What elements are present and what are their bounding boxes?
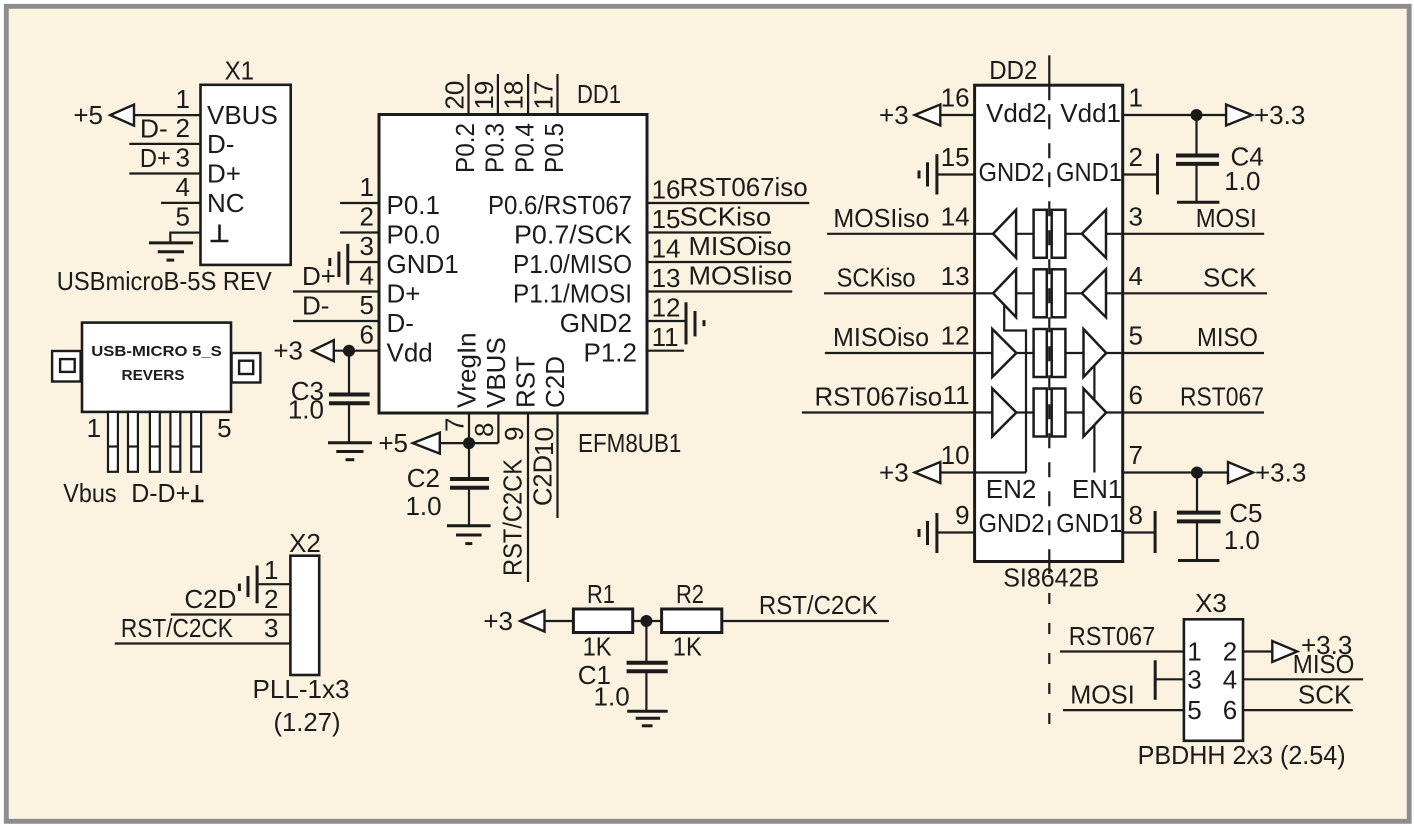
- svg-text:1.0: 1.0: [405, 491, 441, 521]
- svg-text:D-: D-: [387, 308, 414, 338]
- svg-text:+3: +3: [483, 606, 513, 636]
- svg-text:PLL-1x3: PLL-1x3: [253, 674, 350, 704]
- DD2 pin names row1 Vdd2 Vdd1: [979, 98, 1123, 538]
- svg-text:MOSIiso: MOSIiso: [833, 203, 929, 233]
- wire DD1 pin10 net C2D: [556, 413, 558, 518]
- DD1 top pin 19 wire: [497, 74, 499, 115]
- wire DD1 pin6 to +3: [334, 350, 379, 352]
- DD2 right pin numbers: [1129, 83, 1143, 531]
- iso ground bar at pin8: [1154, 511, 1157, 553]
- DD2 body: [975, 85, 1123, 561]
- wire X1 pin5 to ground: [170, 233, 200, 243]
- svg-text:Vbus: Vbus: [63, 478, 116, 508]
- junction node pin7/C5: [1191, 467, 1203, 479]
- wire DD2 pin5 net MISO: [1123, 352, 1264, 354]
- footprint pin 2: [128, 412, 138, 472]
- svg-text:2: 2: [264, 584, 278, 614]
- wire DD2 pin14 net MOSIiso: [827, 233, 975, 235]
- junction node pin1/C4: [1191, 109, 1203, 121]
- svg-text:NC: NC: [207, 188, 245, 218]
- DD1 bottom pin numbers 7 8 9 10: [440, 418, 560, 456]
- svg-text:2: 2: [360, 202, 374, 232]
- svg-text:Vdd1: Vdd1: [1060, 98, 1121, 128]
- wire DD2 pin7 to +3.3: [1123, 471, 1228, 473]
- wire X1 pin2 net D-: [129, 143, 200, 145]
- svg-text:MOSI: MOSI: [1070, 680, 1134, 710]
- svg-text:MISO: MISO: [1293, 649, 1355, 679]
- wire DD1 pin16 net RST067iso: [647, 202, 809, 204]
- svg-text:(1.27): (1.27): [274, 707, 341, 737]
- channel 2 wire (pin13 to pin4 internal): [975, 292, 994, 294]
- capacitor C1: [627, 663, 668, 672]
- wire C4 to iso ground: [1195, 164, 1197, 202]
- wire junction to C4: [1195, 115, 1197, 156]
- svg-text:RST: RST: [511, 356, 541, 408]
- footprint body: [82, 323, 231, 412]
- svg-text:12: 12: [941, 321, 970, 351]
- svg-text:5: 5: [176, 202, 190, 232]
- svg-text:GND1: GND1: [1056, 157, 1122, 187]
- svg-text:SCKiso: SCKiso: [837, 262, 916, 292]
- wire X2 pin1 to ground: [259, 583, 291, 585]
- svg-text:13: 13: [652, 263, 681, 293]
- ground below C1: [627, 711, 668, 726]
- svg-text:10: 10: [529, 427, 559, 456]
- svg-text:15: 15: [941, 142, 970, 172]
- svg-text:4: 4: [1129, 261, 1143, 291]
- DD1 top pin numbers 20 19 18 17: [440, 81, 559, 110]
- svg-text:RST/C2CK: RST/C2CK: [759, 590, 878, 620]
- wire DD2 pin13 net SCKiso: [824, 292, 975, 294]
- footprint pin 3: [150, 412, 160, 472]
- wire X2 pin2 net C2D: [171, 613, 291, 615]
- svg-text:1.0: 1.0: [594, 682, 630, 712]
- channel 1 wire (pin14 to pin3 internal): [975, 233, 994, 235]
- capacitor C4: [1176, 156, 1219, 164]
- connector X2: [289, 528, 321, 675]
- svg-text:2: 2: [1223, 637, 1237, 667]
- svg-text:5: 5: [1129, 321, 1143, 351]
- svg-text:5: 5: [360, 290, 374, 320]
- wire DD1 pin12 to ground: [647, 320, 686, 322]
- svg-text:1: 1: [87, 413, 101, 443]
- wire DD2 pin10 EN2 to +3: [940, 471, 1026, 473]
- wire DD2 pin2 to iso ground: [1123, 173, 1158, 175]
- svg-text:MISOiso: MISOiso: [689, 231, 792, 261]
- svg-text:+3: +3: [879, 100, 909, 130]
- svg-text:EN2: EN2: [986, 474, 1037, 504]
- DD1 pin names P0.2 P0.3 P0.4 P0.5: [450, 123, 569, 173]
- svg-text:1: 1: [1129, 83, 1143, 113]
- svg-text:D+: D+: [207, 159, 241, 189]
- svg-text:Vdd: Vdd: [387, 338, 433, 368]
- svg-text:REVERS: REVERS: [122, 367, 185, 384]
- svg-text:+3: +3: [273, 336, 303, 366]
- svg-text:+5: +5: [378, 428, 408, 458]
- wire X3 pin4 net MISO: [1243, 678, 1363, 680]
- wire C3 to ground: [348, 403, 350, 443]
- wire DD1 pin5 net D-: [293, 320, 379, 322]
- DD1 top pin 20 wire: [467, 74, 469, 115]
- svg-text:6: 6: [360, 320, 374, 350]
- wire X1 pin1 to +5: [134, 114, 201, 116]
- X2 pin numbers 1-3: [264, 555, 278, 643]
- svg-text:C2D: C2D: [540, 356, 570, 408]
- svg-text:VBUS: VBUS: [481, 337, 511, 408]
- svg-text:5: 5: [1187, 695, 1201, 725]
- wire DD1 pin15 net SCKiso: [647, 231, 771, 233]
- isolation barrier dashed centerline: [1048, 85, 1050, 561]
- svg-text:RST067: RST067: [1069, 621, 1155, 651]
- svg-text:USB-MICRO 5_S: USB-MICRO 5_S: [91, 343, 222, 360]
- svg-text:1: 1: [176, 84, 190, 114]
- wire DD2 pin3 net MOSI: [1123, 233, 1264, 235]
- wire junction to C1: [645, 621, 647, 663]
- channel 4 wire (pin11 to pin6 internal): [975, 411, 993, 413]
- svg-text:VregIn: VregIn: [452, 332, 482, 408]
- svg-text:19: 19: [469, 81, 499, 110]
- svg-text:X2: X2: [289, 528, 321, 558]
- isolation barrier line above body: [1048, 55, 1050, 85]
- svg-text:1.0: 1.0: [288, 395, 324, 425]
- svg-text:R1: R1: [587, 579, 615, 609]
- power arrow +3 (R1): [520, 611, 544, 632]
- channel 1 isolation capacitor: [1034, 210, 1047, 258]
- wire pin6 junction to C3: [348, 351, 350, 395]
- USB-micro footprint drawing: [52, 323, 260, 508]
- power arrow +3.3 (pin7): [1228, 462, 1253, 483]
- svg-text:3: 3: [360, 231, 374, 261]
- channel 2 buffer left: [993, 269, 1016, 317]
- ground below C3: [328, 443, 372, 460]
- svg-text:3: 3: [176, 143, 190, 173]
- svg-text:MOSIiso: MOSIiso: [689, 261, 793, 291]
- iso ground bar at pin2: [1156, 154, 1159, 195]
- svg-text:9: 9: [955, 500, 969, 530]
- svg-text:+3.3: +3.3: [1255, 458, 1306, 488]
- channel 4 buffer left: [992, 389, 1016, 437]
- svg-text:4: 4: [176, 172, 190, 202]
- svg-text:1.0: 1.0: [1224, 525, 1260, 555]
- footprint pin 1: [108, 412, 118, 472]
- DD2 left pin numbers: [941, 83, 970, 531]
- DD1 top pin 18 wire: [527, 74, 529, 115]
- DD1 top pin 17 wire: [556, 74, 558, 115]
- svg-text:16: 16: [652, 175, 681, 205]
- svg-text:VBUS: VBUS: [207, 100, 278, 130]
- svg-text:EFM8UB1: EFM8UB1: [578, 428, 681, 458]
- svg-text:GND2: GND2: [560, 308, 632, 338]
- wire junction to C5: [1196, 473, 1198, 513]
- wire X1 pin4 NC stub: [161, 202, 200, 204]
- wire DD2 pin1 to +3.3: [1123, 114, 1226, 116]
- capacitor C3: [329, 395, 370, 404]
- DD1 left pin numbers 1-6: [360, 172, 374, 350]
- svg-text:P0.7/SCK: P0.7/SCK: [514, 220, 633, 250]
- wire X3 pin3 to iso ground: [1155, 678, 1184, 680]
- DD1 right pin numbers 16-11: [652, 175, 681, 353]
- wire DD2 pin6 net RST067: [1123, 411, 1264, 413]
- svg-text:P1.1/MOSI: P1.1/MOSI: [513, 279, 632, 309]
- svg-text:GND1: GND1: [1056, 508, 1122, 538]
- svg-text:R2: R2: [676, 579, 704, 609]
- svg-text:1: 1: [360, 172, 374, 202]
- svg-text:P0.3: P0.3: [479, 123, 509, 173]
- footprint left tab: [52, 351, 81, 382]
- svg-text:18: 18: [499, 81, 529, 110]
- X1 pin name GND symbol: [211, 225, 229, 242]
- svg-text:RST/C2CK: RST/C2CK: [121, 613, 234, 643]
- iso ground bar below C5: [1178, 559, 1219, 562]
- svg-text:2: 2: [1129, 142, 1143, 172]
- wire X3 pin6 net SCK: [1243, 709, 1353, 711]
- wire DD1 pin13 net MOSIiso: [647, 290, 792, 292]
- wire DD2 pin4 net SCK: [1123, 292, 1267, 294]
- wire DD2 pin9 to ground: [937, 531, 975, 533]
- svg-text:DD2: DD2: [989, 55, 1037, 85]
- svg-text:1K: 1K: [583, 632, 613, 662]
- svg-text:C5: C5: [1229, 498, 1262, 528]
- svg-text:+3.3: +3.3: [1254, 100, 1305, 130]
- svg-text:11: 11: [943, 380, 970, 410]
- wire DD2 pin15 to ground: [937, 173, 975, 175]
- wire DD2 pin12 net MISOiso: [825, 352, 975, 354]
- svg-text:D+: D+: [140, 143, 171, 173]
- svg-text:15: 15: [652, 204, 681, 234]
- channel 2 isolation capacitor: [1034, 269, 1047, 317]
- svg-text:6: 6: [1129, 380, 1143, 410]
- wire +3 to R1: [545, 620, 574, 622]
- footprint label ground symbol: [191, 485, 204, 501]
- svg-text:17: 17: [528, 81, 558, 110]
- ground at DD1 pin12 (rotated right): [686, 302, 704, 344]
- svg-text:P0.0: P0.0: [387, 220, 441, 250]
- svg-text:D-: D-: [302, 291, 329, 321]
- wire DD2 pin16 to +3: [940, 114, 974, 116]
- svg-text:3: 3: [1129, 201, 1143, 231]
- svg-text:D+: D+: [387, 279, 421, 309]
- channel 3 buffer right: [1084, 329, 1107, 377]
- svg-text:USBmicroB-5S REV: USBmicroB-5S REV: [57, 266, 273, 296]
- connector X3: [1184, 588, 1243, 741]
- channel 1 buffer left: [993, 210, 1016, 258]
- svg-text:GND1: GND1: [387, 249, 459, 279]
- svg-text:20: 20: [440, 81, 470, 110]
- X1 pin numbers 1-5: [176, 84, 190, 232]
- svg-text:MOSI: MOSI: [1196, 203, 1257, 233]
- svg-text:RST067: RST067: [1180, 382, 1264, 412]
- isolator DD2 SI8642B: [975, 55, 1123, 562]
- svg-text:SCKiso: SCKiso: [680, 202, 772, 232]
- power arrow +3 (pin16): [915, 105, 941, 126]
- svg-text:5: 5: [217, 413, 231, 443]
- channel 3 wire (pin12 to pin5 internal): [975, 352, 993, 354]
- wire DD1 pin9 net RST/C2CK: [527, 413, 529, 582]
- EN1 internal wire: [1093, 366, 1095, 473]
- svg-text:DD1: DD1: [577, 79, 621, 109]
- svg-text:GND2: GND2: [979, 157, 1045, 187]
- ground at X2 pin1 (rotated): [239, 565, 257, 603]
- channel 3 isolation capacitor: [1034, 329, 1047, 377]
- svg-text:SCK: SCK: [1298, 680, 1352, 710]
- wire X3 pin1 net RST067: [1060, 650, 1184, 652]
- wire DD1 pin7: [468, 413, 470, 443]
- wire DD1 pin1 stub: [340, 202, 379, 204]
- svg-text:C2: C2: [407, 463, 440, 493]
- channel 4 isolation capacitor: [1034, 389, 1047, 437]
- power arrow +3.3 (pin1): [1226, 105, 1252, 126]
- svg-text:8: 8: [1129, 500, 1143, 530]
- wire DD1 pin14 net MISOiso: [647, 261, 792, 263]
- DD1 right pin names: [488, 190, 637, 368]
- power arrow +3: [312, 340, 334, 361]
- svg-text:14: 14: [652, 234, 681, 264]
- svg-text:P0.1: P0.1: [387, 190, 441, 220]
- X3 body: [1184, 619, 1243, 741]
- svg-text:16: 16: [941, 83, 970, 113]
- footprint right tab: [232, 353, 261, 383]
- svg-text:7: 7: [1129, 440, 1143, 470]
- DD1 body: [379, 115, 647, 414]
- wire DD1 pin8: [497, 413, 499, 443]
- wire pin7 junction to C2: [468, 443, 470, 479]
- svg-text:PBDHH 2x3 (2.54): PBDHH 2x3 (2.54): [1138, 740, 1346, 770]
- microcontroller DD1 EFM8UB1: [379, 79, 647, 413]
- svg-text:RST/C2CK: RST/C2CK: [498, 458, 528, 576]
- power arrow +3.3 (X3 pin2): [1272, 641, 1297, 662]
- X2 body: [290, 556, 319, 675]
- svg-text:SI8642B: SI8642B: [1003, 563, 1099, 593]
- svg-text:D+: D+: [302, 261, 336, 291]
- svg-text:P0.6/RST067: P0.6/RST067: [488, 190, 632, 220]
- svg-text:14: 14: [941, 201, 970, 231]
- svg-text:1: 1: [264, 555, 278, 585]
- svg-text:D-D+: D-D+: [131, 478, 190, 508]
- wire R1 to R2: [633, 620, 662, 622]
- svg-text:RST067iso: RST067iso: [815, 382, 943, 412]
- wire DD2 pin11 net RST067iso: [802, 411, 975, 413]
- svg-text:P0.5: P0.5: [539, 123, 569, 173]
- capacitor C2: [450, 479, 489, 488]
- wire X2 pin3 net RST/C2CK: [115, 642, 291, 644]
- svg-text:3: 3: [1187, 664, 1201, 694]
- isolation barrier dashed line below body: [1048, 563, 1050, 731]
- wire DD2 pin8 to iso ground: [1123, 531, 1155, 533]
- svg-text:9: 9: [499, 427, 529, 441]
- wire +5 rail: [440, 442, 499, 444]
- svg-text:EN1: EN1: [1072, 474, 1123, 504]
- power arrow +5: [110, 105, 134, 126]
- svg-text:1K: 1K: [673, 632, 703, 662]
- DD1 left pin names: [387, 190, 459, 368]
- footprint pin 5: [191, 412, 201, 472]
- svg-text:SCK: SCK: [1203, 262, 1257, 292]
- power arrow +5: [413, 433, 440, 454]
- svg-text:X3: X3: [1195, 588, 1227, 618]
- ground at DD2 pin9 (rotated): [919, 513, 937, 553]
- svg-text:P0.2: P0.2: [450, 123, 480, 173]
- channel 3 buffer left: [992, 329, 1016, 377]
- svg-text:X1: X1: [225, 56, 255, 86]
- wire C5 to iso ground: [1196, 521, 1198, 560]
- junction node pin6/C3: [343, 345, 355, 357]
- svg-text:C2D: C2D: [184, 584, 236, 614]
- EN2 internal wire: [1004, 305, 1026, 473]
- svg-text:+5: +5: [73, 100, 103, 130]
- connector X1: [201, 56, 291, 265]
- X1 body: [201, 85, 291, 265]
- DD1 bottom pin names VregIn VBUS RST C2D: [452, 332, 571, 408]
- svg-text:GND2: GND2: [979, 508, 1045, 538]
- svg-text:4: 4: [360, 261, 374, 291]
- svg-text:C2D: C2D: [528, 455, 558, 506]
- ground at X1 pin5: [149, 243, 193, 260]
- iso ground bar at X3 pin3: [1154, 660, 1157, 700]
- svg-text:D-: D-: [207, 129, 234, 159]
- svg-text:2: 2: [176, 113, 190, 143]
- svg-text:6: 6: [1223, 695, 1237, 725]
- footprint pin 4: [170, 412, 180, 472]
- junction node pin7/C2: [463, 437, 475, 449]
- svg-text:12: 12: [652, 293, 681, 323]
- wire C1 to ground: [645, 671, 647, 711]
- resistor R2: [662, 609, 722, 633]
- svg-text:8: 8: [469, 423, 499, 437]
- svg-text:+3: +3: [879, 458, 909, 488]
- wire X1 pin3 net D+: [129, 172, 200, 174]
- junction node R1/R2/C1: [640, 615, 652, 627]
- channel 1 buffer right: [1082, 210, 1106, 258]
- svg-text:D-: D-: [140, 113, 168, 143]
- X3 pin numbers: [1187, 637, 1237, 726]
- svg-text:3: 3: [264, 613, 278, 643]
- svg-text:MISO: MISO: [1197, 322, 1258, 352]
- channel 2 buffer right: [1082, 269, 1106, 317]
- wire C2 to ground: [468, 488, 470, 526]
- iso ground bar below C4: [1177, 201, 1219, 204]
- svg-text:RST067iso: RST067iso: [680, 172, 808, 202]
- svg-text:P1.0/MISO: P1.0/MISO: [513, 249, 632, 279]
- resistor R1: [573, 609, 632, 633]
- svg-text:1: 1: [1187, 637, 1201, 667]
- ground at DD2 pin15 (rotated): [919, 154, 937, 194]
- wire DD1 pin3 to ground: [348, 261, 379, 263]
- wire R2 net RST/C2CK: [722, 620, 889, 622]
- svg-text:1.0: 1.0: [1224, 166, 1260, 196]
- wire X3 pin2 to +3.3: [1243, 650, 1272, 652]
- ground at DD1 pin3 (rotated): [330, 244, 348, 285]
- power arrow +3 (pin10): [915, 462, 941, 483]
- channel 4 buffer right: [1084, 389, 1107, 437]
- svg-text:10: 10: [941, 440, 970, 470]
- svg-text:Vdd2: Vdd2: [986, 98, 1047, 128]
- capacitor C5: [1177, 513, 1221, 522]
- wire DD1 pin11 stub: [647, 350, 684, 352]
- svg-text:P0.4: P0.4: [510, 123, 540, 173]
- wire DD1 pin4 net D+: [293, 290, 379, 292]
- wire X3 pin5 net MOSI: [1063, 709, 1184, 711]
- wire DD1 pin2 stub: [340, 231, 379, 233]
- ground below C2: [447, 526, 491, 544]
- svg-text:4: 4: [1223, 664, 1237, 694]
- svg-text:7: 7: [440, 418, 470, 432]
- svg-text:P1.2: P1.2: [584, 338, 638, 368]
- svg-text:13: 13: [941, 261, 970, 291]
- svg-text:11: 11: [652, 322, 679, 352]
- svg-text:MISOiso: MISOiso: [833, 322, 929, 352]
